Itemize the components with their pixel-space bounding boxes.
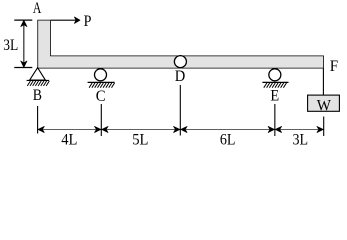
roller support at E: circle (269, 69, 281, 81)
dimension 3L vertical: bottom tick (14, 67, 32, 69)
roller support at C: base line (88, 81, 115, 83)
internal hinge at D: circle (174, 56, 186, 68)
svg-text:3L: 3L (3, 37, 18, 54)
hanger wire from F down to weight (322, 68, 324, 95)
extension line under C (100, 104, 102, 136)
beam and column L-shaped member A-B-F (38, 20, 324, 68)
pin support at B: hatching (27, 81, 49, 86)
svg-text:C: C (96, 88, 106, 105)
arrowheads at C (95, 126, 101, 132)
dimension 3L vertical: top tick (14, 19, 32, 21)
svg-text:W: W (317, 97, 332, 114)
extension line under B (37, 106, 39, 134)
svg-text:D: D (175, 68, 186, 85)
extension line under E (274, 104, 276, 136)
svg-text:E: E (270, 88, 279, 105)
pin support at B: triangle (30, 68, 46, 80)
arrowhead at B (pointing left) (38, 126, 44, 132)
weight W box (308, 95, 340, 111)
roller support at E: base line (262, 81, 288, 83)
arrowheads at D (174, 126, 180, 132)
svg-text:4L: 4L (61, 131, 77, 148)
roller support at C: circle (95, 69, 107, 81)
pin support at B: base line (27, 79, 49, 81)
svg-text:3L: 3L (292, 131, 308, 148)
dimension 3L vertical: up arrowhead (21, 20, 27, 26)
roller support at E: hatching (264, 83, 287, 88)
arrowheads at E (268, 126, 274, 132)
svg-text:P: P (84, 13, 92, 30)
dimension line B to right end (38, 128, 324, 130)
arrowhead at right end (pointing right) (317, 126, 323, 132)
dimension 3L vertical: down arrowhead (21, 61, 27, 67)
extension line under D (179, 85, 181, 136)
svg-text:B: B (33, 87, 42, 104)
svg-text:6L: 6L (220, 131, 236, 148)
dimension 3L vertical: line (23, 24, 25, 64)
svg-text:F: F (330, 58, 338, 75)
svg-text:5L: 5L (132, 131, 148, 148)
svg-text:A: A (33, 0, 42, 17)
force P arrow (51, 17, 80, 24)
extension line under F/W (323, 117, 325, 137)
roller support at C: hatching (89, 83, 115, 88)
